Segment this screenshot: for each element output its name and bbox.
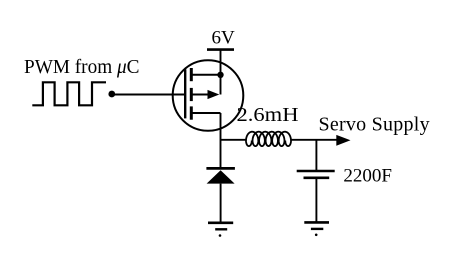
wire: inductor to output node and arrow shaft: [291, 139, 339, 141]
ground (right, under C1): [304, 222, 329, 229]
ground (left, under D1): [208, 223, 233, 230]
supply rail bar (6V): [207, 48, 234, 51]
wire: PWM input to MOSFET gate: [112, 94, 185, 96]
wire: 6V rail to Q1 drain/bulk: [220, 50, 222, 95]
svg-text:2.6mH: 2.6mH: [237, 104, 299, 126]
svg-text:2200F: 2200F: [343, 165, 392, 186]
svg-text:6V: 6V: [212, 28, 236, 49]
capacitor C1 bottom plate: [304, 177, 330, 180]
arrow: Servo Supply output: [336, 135, 350, 146]
transistor Q1: P-channel MOSFET (body of symbol): [173, 60, 244, 131]
inductor L1 (2.6mH coil): [246, 132, 291, 146]
wire: diode D1 anode to left ground: [220, 184, 222, 223]
wire: output node down to capacitor C1: [315, 140, 317, 171]
wire: Q1 source down to switch node / diode cathode: [220, 113, 222, 168]
wire: switch node to inductor: [221, 139, 247, 141]
node: PWM input junction dot: [108, 91, 115, 98]
capacitor C1 top plate: [297, 170, 335, 173]
diode D1 cathode bar: [206, 167, 235, 170]
diode D1 body (filled triangle, anode below pointing up): [207, 170, 235, 183]
square-wave source symbol (PWM waveform): [32, 82, 106, 105]
wire: capacitor C1 to right ground: [315, 178, 317, 223]
svg-text:PWM from μC: PWM from μC: [24, 56, 140, 78]
transistor Q1 bulk arrow (points away from channel = P-type): [208, 90, 220, 99]
svg-text:Servo Supply: Servo Supply: [319, 114, 430, 136]
node: drain-bulk junction dot inside Q1: [217, 72, 223, 78]
